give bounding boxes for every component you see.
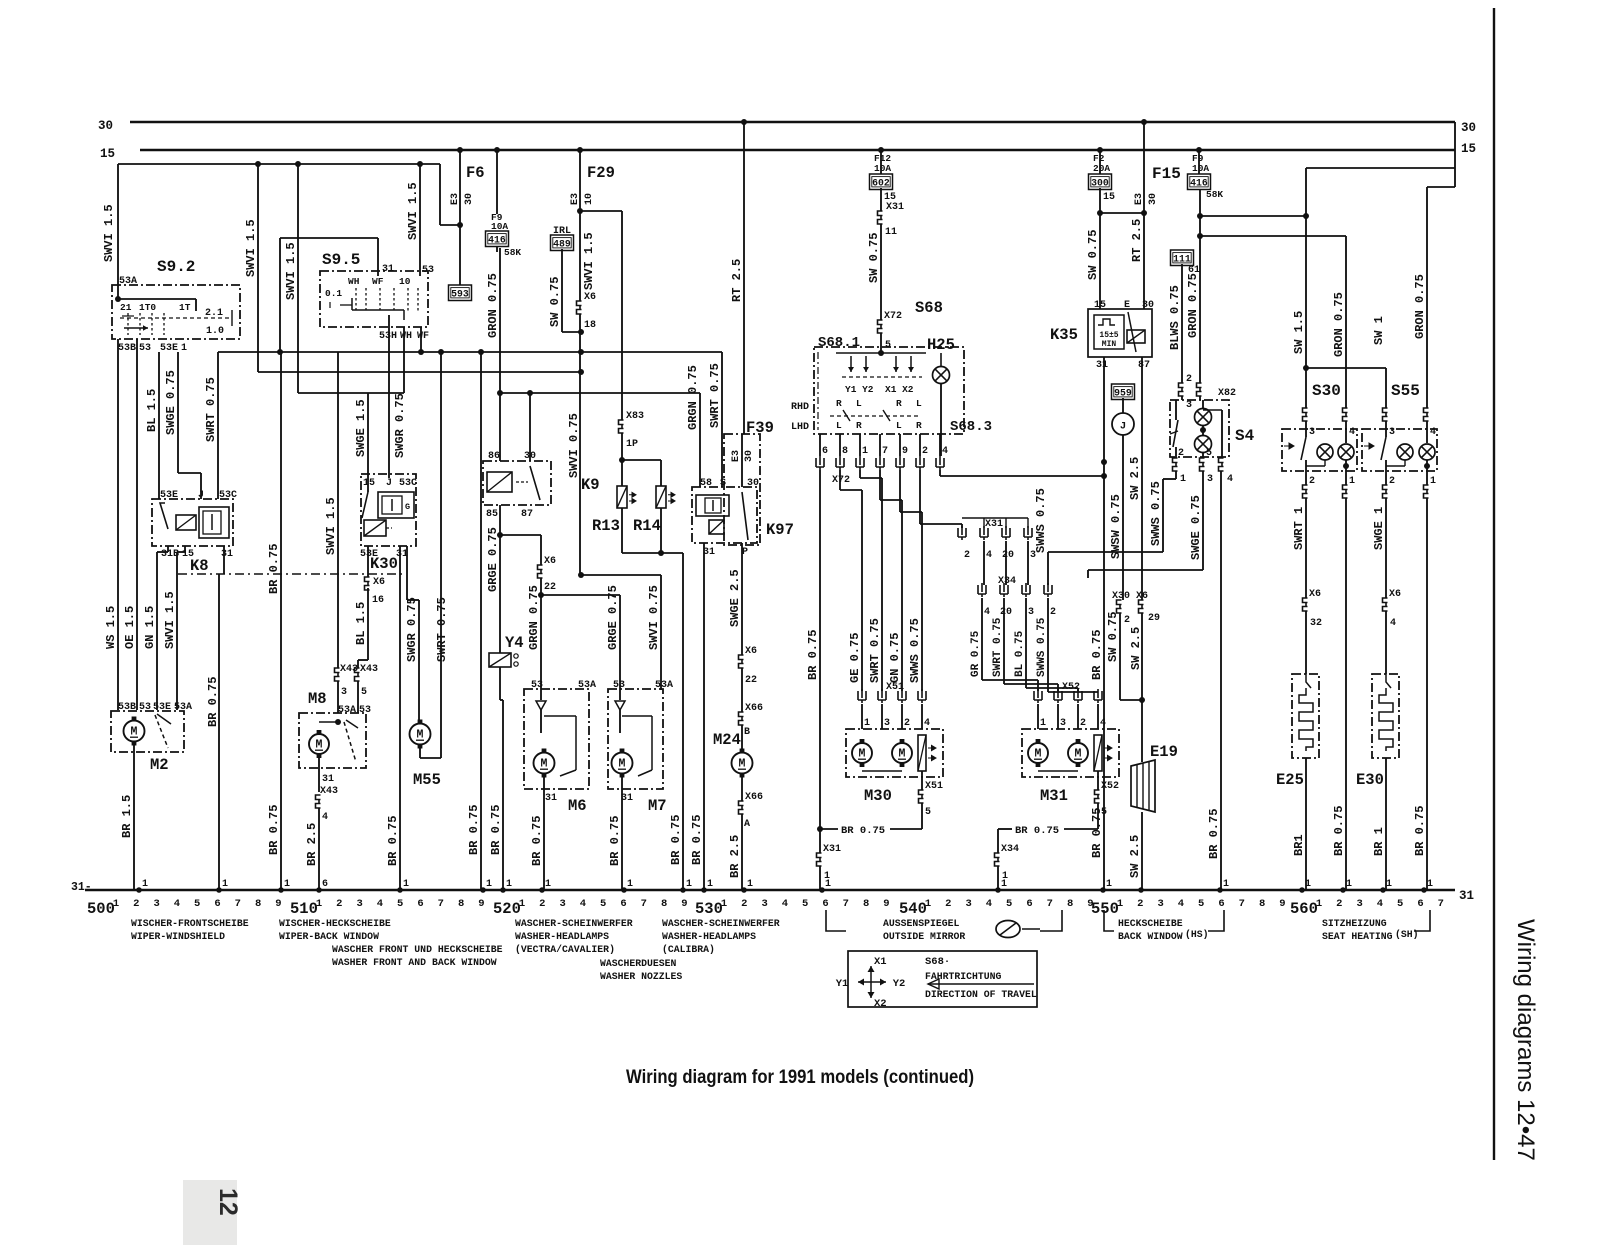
svg-text:GE 0.75: GE 0.75: [848, 633, 862, 683]
svg-text:SEAT HEATING: SEAT HEATING: [1322, 931, 1393, 942]
svg-text:SWRT 0.75: SWRT 0.75: [435, 597, 449, 662]
svg-text:15: 15: [1103, 192, 1115, 203]
svg-text:4: 4: [1227, 474, 1233, 485]
svg-text:GRGE 0.75: GRGE 0.75: [486, 527, 500, 592]
svg-text:1: 1: [181, 343, 187, 354]
svg-text:4: 4: [942, 446, 948, 457]
svg-text:GRGN 0.75: GRGN 0.75: [527, 585, 541, 650]
svg-text:GRON 0.75: GRON 0.75: [1332, 292, 1346, 357]
svg-text:3: 3: [1356, 898, 1362, 910]
svg-text:1T0: 1T0: [139, 302, 156, 313]
svg-text:1: 1: [486, 879, 492, 890]
svg-text:1: 1: [721, 898, 727, 910]
svg-text:3: 3: [1207, 474, 1213, 485]
svg-text:30: 30: [98, 119, 113, 133]
svg-text:X2: X2: [874, 998, 887, 1010]
svg-text:WF: WF: [372, 276, 384, 287]
svg-text:7: 7: [1047, 898, 1053, 910]
svg-text:X82: X82: [1218, 388, 1236, 399]
svg-text:31: 31: [1459, 889, 1474, 903]
svg-text:1: 1: [747, 879, 753, 890]
svg-text:BR 1: BR 1: [1372, 827, 1386, 856]
svg-text:X83: X83: [626, 411, 644, 422]
svg-text:31: 31: [545, 793, 557, 804]
svg-text:520: 520: [493, 900, 521, 918]
svg-text:Wiring diagram for 1991 models: Wiring diagram for 1991 models (continue…: [626, 1067, 974, 1088]
svg-text:X43: X43: [340, 664, 358, 675]
svg-text:OUTSIDE MIRROR: OUTSIDE MIRROR: [883, 931, 965, 942]
svg-text:20: 20: [1002, 550, 1014, 561]
svg-text:21: 21: [120, 302, 132, 313]
svg-text:E3: E3: [570, 193, 581, 205]
svg-text:2: 2: [741, 898, 747, 910]
svg-text:53E: 53E: [160, 490, 178, 501]
svg-text:1P: 1P: [626, 439, 638, 450]
svg-text:3: 3: [884, 718, 890, 729]
svg-text:M24: M24: [713, 731, 741, 749]
svg-text:BR 0.75: BR 0.75: [467, 805, 481, 855]
svg-text:SWSW 0.75: SWSW 0.75: [1109, 494, 1123, 559]
svg-text:H25: H25: [927, 336, 955, 354]
svg-text:M2: M2: [150, 756, 169, 774]
svg-text:L: L: [836, 420, 842, 431]
svg-text:F6: F6: [466, 164, 485, 182]
svg-text:X43: X43: [360, 664, 378, 675]
svg-text:1: 1: [506, 879, 512, 890]
svg-text:1: 1: [403, 879, 409, 890]
svg-text:1: 1: [1106, 879, 1112, 890]
svg-text:416: 416: [1190, 178, 1208, 189]
svg-text:S68: S68: [915, 299, 943, 317]
svg-text:WASCHER-SCHEINWERFER: WASCHER-SCHEINWERFER: [515, 918, 633, 929]
svg-text:WF: WF: [417, 331, 429, 342]
svg-text:15: 15: [363, 478, 375, 489]
svg-text:0.1: 0.1: [325, 288, 342, 299]
svg-text:4: 4: [984, 607, 990, 618]
svg-text:GRON 0.75: GRON 0.75: [1186, 273, 1200, 338]
svg-text:4: 4: [924, 718, 930, 729]
svg-text:Y4: Y4: [505, 634, 524, 652]
svg-text:8: 8: [458, 898, 464, 910]
svg-text:5: 5: [194, 898, 200, 910]
svg-text:12: 12: [214, 1188, 242, 1216]
svg-text:SW 2.5: SW 2.5: [1128, 835, 1142, 878]
svg-text:S: S: [720, 478, 726, 489]
svg-text:7: 7: [882, 446, 888, 457]
svg-text:SWVI 1.5: SWVI 1.5: [324, 497, 338, 555]
svg-text:3: 3: [761, 898, 767, 910]
svg-text:1: 1: [519, 898, 525, 910]
svg-text:J: J: [198, 490, 204, 501]
svg-text:SITZHEIZUNG: SITZHEIZUNG: [1322, 918, 1387, 929]
svg-text:GN 1.5: GN 1.5: [143, 606, 157, 649]
svg-text:1: 1: [222, 879, 228, 890]
svg-text:4: 4: [322, 812, 328, 823]
svg-text:2: 2: [1178, 448, 1184, 459]
svg-text:6: 6: [620, 898, 626, 910]
svg-text:1: 1: [824, 871, 830, 882]
svg-text:8: 8: [1067, 898, 1073, 910]
svg-text:Wiring diagrams 12•47: Wiring diagrams 12•47: [1512, 919, 1539, 1161]
svg-text:4: 4: [174, 898, 180, 910]
svg-text:6: 6: [1218, 898, 1224, 910]
svg-text:K8: K8: [190, 557, 209, 575]
svg-text:18: 18: [584, 320, 596, 331]
svg-text:WASHER-HEADLAMPS: WASHER-HEADLAMPS: [662, 931, 756, 942]
svg-text:30: 30: [744, 450, 755, 462]
svg-text:5: 5: [885, 340, 891, 351]
svg-text:6: 6: [822, 446, 828, 457]
svg-text:4: 4: [1377, 898, 1383, 910]
svg-text:1: 1: [545, 879, 551, 890]
svg-text:7: 7: [235, 898, 241, 910]
svg-text:4: 4: [1390, 618, 1396, 629]
svg-text:(VECTRA/CAVALIER): (VECTRA/CAVALIER): [515, 944, 615, 955]
svg-text:1: 1: [142, 879, 148, 890]
svg-text:E25: E25: [1276, 771, 1304, 789]
svg-text:G: G: [405, 502, 410, 512]
svg-text:7: 7: [438, 898, 444, 910]
svg-text:BR 0.75: BR 0.75: [530, 816, 544, 866]
svg-text:SW 0.75: SW 0.75: [1106, 612, 1120, 662]
svg-text:31: 31: [1096, 360, 1108, 371]
svg-text:58K: 58K: [1206, 189, 1223, 200]
svg-text:BR 0.75: BR 0.75: [669, 815, 683, 865]
svg-text:3: 3: [1028, 607, 1034, 618]
svg-text:BR 0.75: BR 0.75: [1090, 630, 1104, 680]
svg-text:1: 1: [1316, 898, 1322, 910]
svg-text:F15: F15: [1152, 165, 1181, 183]
svg-text:3: 3: [1060, 718, 1066, 729]
svg-text:SWWS 0.75: SWWS 0.75: [1034, 488, 1048, 553]
svg-text:Y1: Y1: [836, 978, 849, 990]
svg-text:J: J: [1120, 421, 1126, 433]
svg-text:SWRT 0.75: SWRT 0.75: [992, 617, 1004, 677]
svg-text:R: R: [896, 398, 902, 409]
svg-text:BR 0.75: BR 0.75: [267, 544, 281, 594]
svg-text:S4: S4: [1235, 427, 1255, 445]
svg-text:E3: E3: [1134, 193, 1145, 205]
svg-text:5: 5: [1206, 448, 1212, 459]
svg-text:X31: X31: [823, 844, 841, 855]
svg-text:S68.3: S68.3: [950, 419, 992, 435]
svg-text:SWVI 0.75: SWVI 0.75: [567, 413, 581, 478]
svg-text:M8: M8: [308, 690, 327, 708]
svg-text:58K: 58K: [504, 247, 521, 258]
svg-text:WISCHER-FRONTSCHEIBE: WISCHER-FRONTSCHEIBE: [131, 918, 249, 929]
svg-text:S55: S55: [1391, 382, 1420, 400]
svg-text:BR 0.75: BR 0.75: [206, 677, 220, 727]
svg-text:X43: X43: [320, 786, 338, 797]
svg-text:53C: 53C: [219, 490, 237, 501]
svg-text:2: 2: [133, 898, 139, 910]
svg-text:10A: 10A: [1192, 163, 1209, 174]
svg-text:K30: K30: [370, 555, 398, 573]
svg-text:BR 0.75: BR 0.75: [608, 816, 622, 866]
svg-text:WH: WH: [348, 276, 360, 287]
svg-text:5: 5: [1006, 898, 1012, 910]
svg-text:E30: E30: [1356, 771, 1384, 789]
svg-text:53E: 53E: [160, 343, 178, 354]
svg-text:8: 8: [842, 446, 848, 457]
svg-text:10: 10: [584, 193, 595, 205]
svg-text:6: 6: [322, 879, 328, 890]
svg-text:SWRT 0.75: SWRT 0.75: [204, 377, 218, 442]
svg-text:BR 0.75: BR 0.75: [267, 805, 281, 855]
svg-text:20: 20: [1000, 607, 1012, 618]
svg-text:BR 0.75: BR 0.75: [1207, 809, 1221, 859]
svg-text:1.0: 1.0: [206, 326, 224, 337]
svg-text:GRON 0.75: GRON 0.75: [486, 273, 500, 338]
svg-text:BR 1.5: BR 1.5: [120, 795, 134, 838]
svg-text:M55: M55: [413, 771, 441, 789]
svg-text:SWVI 1.5: SWVI 1.5: [102, 204, 116, 262]
svg-text:BR 0.75: BR 0.75: [1413, 806, 1427, 856]
svg-text:1: 1: [1002, 871, 1008, 882]
svg-text:SW 2.5: SW 2.5: [1129, 627, 1143, 670]
svg-text:X6: X6: [373, 577, 385, 588]
svg-text:X6: X6: [1389, 589, 1401, 600]
svg-text:29: 29: [1148, 613, 1160, 624]
svg-text:2.1: 2.1: [205, 308, 223, 319]
svg-text:2: 2: [1050, 607, 1056, 618]
svg-text:602: 602: [872, 178, 890, 189]
svg-text:R13: R13: [592, 517, 620, 535]
svg-text:WS 1.5: WS 1.5: [104, 606, 118, 649]
svg-text:489: 489: [553, 239, 571, 250]
svg-text:9: 9: [275, 898, 281, 910]
svg-text:959: 959: [1114, 388, 1132, 399]
svg-text:1: 1: [113, 898, 119, 910]
svg-text:16: 16: [372, 595, 384, 606]
svg-text:AUSSENSPIEGEL: AUSSENSPIEGEL: [883, 918, 960, 929]
svg-text:22: 22: [544, 582, 556, 593]
svg-text:1: 1: [707, 879, 713, 890]
svg-text:300: 300: [1091, 178, 1109, 189]
svg-text:2: 2: [336, 898, 342, 910]
svg-text:WASCHERDUESEN: WASCHERDUESEN: [600, 958, 677, 969]
svg-text:416: 416: [488, 235, 506, 246]
svg-text:L: L: [856, 398, 862, 409]
svg-text:53: 53: [139, 343, 151, 354]
svg-text:53B: 53B: [118, 343, 136, 354]
svg-text:BR 0.75: BR 0.75: [1015, 825, 1059, 837]
svg-text:4: 4: [782, 898, 788, 910]
svg-text:5: 5: [600, 898, 606, 910]
svg-text:K97: K97: [766, 521, 794, 539]
svg-text:3: 3: [1186, 400, 1192, 411]
svg-text:5: 5: [361, 687, 367, 698]
svg-text:SWRT 0.75: SWRT 0.75: [868, 618, 882, 683]
svg-text:SWWS 0.75: SWWS 0.75: [1036, 617, 1048, 677]
svg-text:4: 4: [986, 550, 992, 561]
svg-text:BR 0.75: BR 0.75: [690, 815, 704, 865]
svg-text:X31: X31: [886, 202, 904, 213]
svg-text:510: 510: [290, 900, 318, 918]
svg-text:BR 0.75: BR 0.75: [841, 825, 885, 837]
svg-text:53A: 53A: [338, 705, 356, 716]
svg-text:2: 2: [1186, 374, 1192, 385]
svg-text:X6: X6: [544, 556, 556, 567]
svg-text:SWRT 1: SWRT 1: [1292, 507, 1306, 550]
svg-text:9: 9: [902, 446, 908, 457]
svg-text:SWGE 2.5: SWGE 2.5: [728, 569, 742, 627]
svg-text:R14: R14: [633, 517, 661, 535]
svg-text:HECKSCHEIBE: HECKSCHEIBE: [1118, 918, 1183, 929]
svg-text:M31: M31: [1040, 787, 1068, 805]
svg-text:5: 5: [1198, 898, 1204, 910]
svg-text:Y1 Y2: Y1 Y2: [845, 384, 874, 395]
svg-text:30: 30: [464, 193, 475, 205]
svg-text:500: 500: [87, 900, 115, 918]
svg-text:4: 4: [1100, 718, 1106, 729]
svg-text:5: 5: [925, 807, 931, 818]
svg-text:1: 1: [1349, 476, 1355, 487]
svg-text:15±5: 15±5: [1099, 331, 1118, 340]
svg-text:9: 9: [1279, 898, 1285, 910]
svg-text:J: J: [386, 478, 392, 489]
svg-text:SW 2.5: SW 2.5: [1128, 457, 1142, 500]
svg-text:530: 530: [695, 900, 723, 918]
svg-text:E3: E3: [731, 450, 742, 462]
svg-text:X72: X72: [884, 311, 902, 322]
svg-text:1: 1: [316, 898, 322, 910]
svg-text:SWVI 1.5: SWVI 1.5: [406, 182, 420, 240]
svg-text:2: 2: [904, 718, 910, 729]
svg-text:M7: M7: [648, 797, 667, 815]
svg-text:3: 3: [341, 687, 347, 698]
svg-text:30: 30: [1148, 193, 1159, 205]
svg-text:SW 1.5: SW 1.5: [1292, 311, 1306, 354]
svg-text:SW 1: SW 1: [1372, 316, 1386, 345]
svg-text:X6: X6: [1309, 589, 1321, 600]
svg-text:(CALIBRA): (CALIBRA): [662, 944, 715, 955]
svg-text:RHD: RHD: [791, 402, 809, 413]
svg-text:DIRECTION OF TRAVEL: DIRECTION OF TRAVEL: [925, 989, 1037, 1000]
svg-text:SW 0.75: SW 0.75: [548, 277, 562, 327]
svg-text:SWGE 0.75: SWGE 0.75: [1189, 495, 1203, 560]
svg-text:BACK WINDOW: BACK WINDOW: [1118, 931, 1183, 942]
svg-text:4: 4: [580, 898, 586, 910]
svg-text:560: 560: [1290, 900, 1318, 918]
svg-text:31: 31: [322, 774, 334, 785]
svg-text:L: L: [916, 398, 922, 409]
svg-text:SWVI 1.5: SWVI 1.5: [284, 242, 298, 300]
svg-text:WASCHER FRONT UND HECKSCHEIBE: WASCHER FRONT UND HECKSCHEIBE: [332, 944, 503, 955]
svg-text:6: 6: [417, 898, 423, 910]
svg-text:SWRT 0.75: SWRT 0.75: [708, 363, 722, 428]
svg-text:4: 4: [377, 898, 383, 910]
svg-text:8: 8: [863, 898, 869, 910]
svg-text:32: 32: [1310, 618, 1322, 629]
svg-text:M30: M30: [864, 787, 892, 805]
svg-text:1: 1: [862, 446, 868, 457]
svg-text:WASHER FRONT AND BACK WINDOW: WASHER FRONT AND BACK WINDOW: [332, 957, 497, 968]
svg-text:BR 0.75: BR 0.75: [806, 630, 820, 680]
svg-text:5: 5: [802, 898, 808, 910]
svg-text:SWVI 0.75: SWVI 0.75: [647, 585, 661, 650]
svg-text:31: 31: [382, 264, 394, 275]
svg-text:GRGE 0.75: GRGE 0.75: [606, 585, 620, 650]
svg-text:22: 22: [745, 675, 757, 686]
svg-text:X34: X34: [1001, 844, 1019, 855]
svg-text:WASCHER-SCHEINWERFER: WASCHER-SCHEINWERFER: [662, 918, 780, 929]
svg-text:2: 2: [922, 446, 928, 457]
svg-text:SWGR 0.75: SWGR 0.75: [405, 597, 419, 662]
svg-text:31: 31: [221, 549, 233, 560]
svg-text:SWGE 0.75: SWGE 0.75: [164, 370, 178, 435]
svg-text:1: 1: [925, 898, 931, 910]
svg-text:1: 1: [686, 879, 692, 890]
svg-text:31B: 31B: [161, 549, 179, 560]
svg-text:6: 6: [1026, 898, 1032, 910]
svg-text:8: 8: [255, 898, 261, 910]
svg-text:K9: K9: [581, 476, 600, 494]
svg-text:1T: 1T: [179, 302, 191, 313]
svg-text:3: 3: [965, 898, 971, 910]
svg-text:4: 4: [1178, 898, 1184, 910]
svg-text:87: 87: [521, 509, 533, 520]
svg-text:53H: 53H: [379, 331, 397, 342]
svg-text:7: 7: [1438, 898, 1444, 910]
svg-text:SWGE 1.5: SWGE 1.5: [354, 399, 368, 457]
svg-text:8: 8: [661, 898, 667, 910]
svg-text:10: 10: [399, 276, 411, 287]
svg-text:X72: X72: [832, 475, 850, 486]
svg-text:31-: 31-: [71, 881, 92, 894]
svg-text:SWVI 1.5: SWVI 1.5: [163, 591, 177, 649]
svg-text:4: 4: [986, 898, 992, 910]
svg-text:Y2: Y2: [893, 978, 906, 990]
svg-text:2: 2: [1309, 476, 1315, 487]
svg-text:10A: 10A: [874, 163, 891, 174]
svg-text:1: 1: [1040, 718, 1046, 729]
svg-text:X51: X51: [925, 781, 943, 792]
svg-text:S68·: S68·: [925, 956, 950, 968]
svg-text:5: 5: [397, 898, 403, 910]
svg-text:2: 2: [1080, 718, 1086, 729]
svg-text:61: 61: [1188, 265, 1200, 276]
svg-text:3: 3: [356, 898, 362, 910]
svg-text:1: 1: [1430, 476, 1436, 487]
svg-text:111: 111: [1173, 254, 1191, 265]
svg-text:6: 6: [1417, 898, 1423, 910]
svg-text:BR 0.75: BR 0.75: [1332, 806, 1346, 856]
svg-text:1: 1: [864, 718, 870, 729]
svg-text:BR 2.5: BR 2.5: [305, 823, 319, 866]
svg-text:X66: X66: [745, 792, 763, 803]
svg-text:SWGR 0.75: SWGR 0.75: [393, 393, 407, 458]
svg-text:2: 2: [1124, 615, 1130, 626]
svg-text:X1: X1: [874, 956, 887, 968]
svg-text:WASHER-HEADLAMPS: WASHER-HEADLAMPS: [515, 931, 609, 942]
svg-text:SWVI 1.5: SWVI 1.5: [582, 232, 596, 290]
svg-text:SWVI 1.5: SWVI 1.5: [244, 219, 258, 277]
svg-text:9: 9: [883, 898, 889, 910]
svg-text:BL 0.75: BL 0.75: [1014, 630, 1026, 677]
svg-text:SWWS 0.75: SWWS 0.75: [1149, 481, 1163, 546]
svg-text:OE 1.5: OE 1.5: [123, 606, 137, 649]
svg-text:K35: K35: [1050, 326, 1078, 344]
svg-text:E19: E19: [1150, 743, 1178, 761]
svg-text:11: 11: [885, 227, 897, 238]
svg-text:BR 0.75: BR 0.75: [489, 805, 503, 855]
svg-text:S30: S30: [1312, 382, 1341, 400]
svg-text:7: 7: [1239, 898, 1245, 910]
svg-text:R: R: [916, 420, 922, 431]
svg-text:2: 2: [1137, 898, 1143, 910]
svg-text:S9.5: S9.5: [322, 251, 360, 269]
